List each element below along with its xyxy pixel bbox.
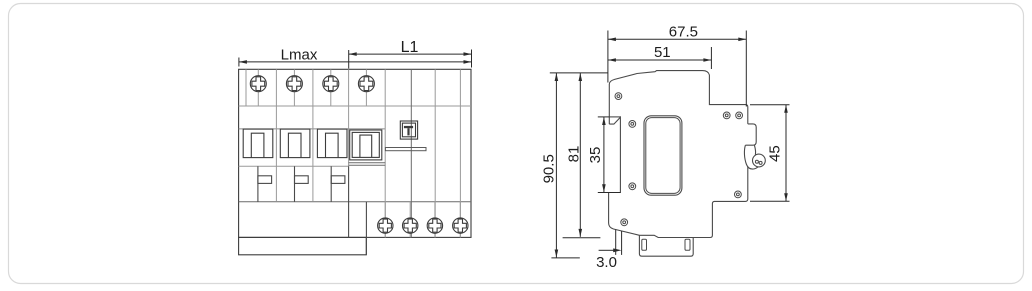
rivet pair top-right a bbox=[723, 112, 730, 119]
divider at 411 bbox=[410, 69, 412, 237]
rivet window top-left bbox=[629, 121, 636, 128]
terminal cage 3 bbox=[317, 129, 347, 158]
label window inner bbox=[646, 118, 680, 194]
rivet bottom-right bbox=[735, 191, 742, 198]
top screw 2 bbox=[286, 69, 302, 106]
top screw 3 bbox=[323, 69, 339, 106]
label window outer bbox=[644, 116, 682, 195]
dimension 51 bbox=[608, 47, 712, 69]
ledge bar right of cage 4 bbox=[385, 148, 426, 151]
rivet window bottom-left bbox=[629, 183, 636, 190]
side body outline bbox=[609, 71, 748, 238]
dimension 3.0 bbox=[599, 230, 622, 255]
divider left narrow strip bbox=[245, 69, 247, 106]
svg-text:81: 81 bbox=[566, 146, 583, 163]
toggle knob circle bbox=[754, 145, 755, 154]
dimension Lmax bbox=[239, 50, 472, 68]
svg-text:3.0: 3.0 bbox=[596, 254, 617, 271]
top screw 4 bbox=[358, 76, 374, 92]
toggle tab bbox=[745, 124, 756, 145]
strip right edge dark bbox=[365, 202, 367, 255]
dimension 81 bbox=[563, 73, 601, 238]
svg-text:67.5: 67.5 bbox=[669, 23, 698, 40]
foot slot right bbox=[685, 239, 690, 250]
dimension 90.5 bbox=[550, 73, 608, 258]
horizontal line H4 top of clip row bbox=[239, 165, 349, 167]
dimension 35 bbox=[598, 117, 621, 193]
front view outer body bbox=[239, 69, 471, 237]
horizontal line H5 bottom of clip row bbox=[239, 201, 471, 203]
clip flag 3 bbox=[331, 176, 345, 184]
dimension 67.5 bbox=[608, 31, 746, 107]
clip row pole 1 centre line bbox=[257, 166, 259, 202]
rivet top-left bbox=[615, 93, 622, 100]
svg-text:35: 35 bbox=[587, 147, 604, 164]
pole divider 1 bbox=[275, 69, 277, 202]
knob dot 1 bbox=[755, 160, 758, 163]
svg-text:90.5: 90.5 bbox=[540, 154, 557, 183]
dimension 45 bbox=[750, 105, 790, 202]
dimension L1 bbox=[349, 50, 472, 69]
horizontal line H2 below top screws bbox=[239, 105, 471, 107]
divider at 435 bbox=[434, 69, 436, 237]
terminal cage 2 bbox=[280, 129, 310, 158]
test button T glyph bbox=[404, 126, 413, 135]
test button bbox=[400, 121, 417, 139]
knob dot 2 bbox=[759, 161, 762, 164]
double lines under cage 4 bbox=[349, 162, 386, 164]
pole divider 3 lower dark bbox=[348, 166, 350, 237]
divider at 460 bbox=[459, 69, 461, 237]
rivet bottom-left bbox=[621, 219, 628, 226]
bottom screw 2 bbox=[403, 202, 418, 238]
top screw 1 bbox=[250, 69, 266, 106]
svg-text:L1: L1 bbox=[401, 39, 419, 56]
pole divider 3 upper bbox=[348, 69, 350, 166]
terminal cage 4 (N pole) bbox=[350, 130, 382, 160]
clip flag 2 bbox=[295, 176, 309, 184]
bottom strip of front body bbox=[239, 237, 367, 254]
svg-text:Lmax: Lmax bbox=[281, 47, 318, 64]
pole divider 2 bbox=[312, 69, 314, 202]
clip row pole 2 centre line bbox=[294, 166, 296, 202]
bottom screw 3 bbox=[427, 202, 442, 238]
DIN channel bbox=[609, 117, 621, 192]
rivet pair top-right b bbox=[736, 112, 743, 119]
toggle lever left edge bbox=[744, 145, 758, 169]
DIN foot bbox=[639, 235, 693, 256]
svg-text:45: 45 bbox=[766, 145, 783, 162]
clip row pole 3 centre line bbox=[330, 166, 332, 202]
svg-text:51: 51 bbox=[654, 44, 671, 61]
horizontal line H3 top of terminal cages bbox=[239, 128, 386, 130]
foot slot left bbox=[642, 239, 647, 250]
clip flag 1 bbox=[258, 176, 272, 184]
bottom screw 4 bbox=[453, 202, 468, 238]
terminal cage 1 bbox=[243, 129, 273, 158]
bottom screw 1 bbox=[378, 202, 393, 238]
divider at 385 bbox=[384, 69, 386, 237]
screw 4 centre line top bbox=[365, 69, 367, 106]
